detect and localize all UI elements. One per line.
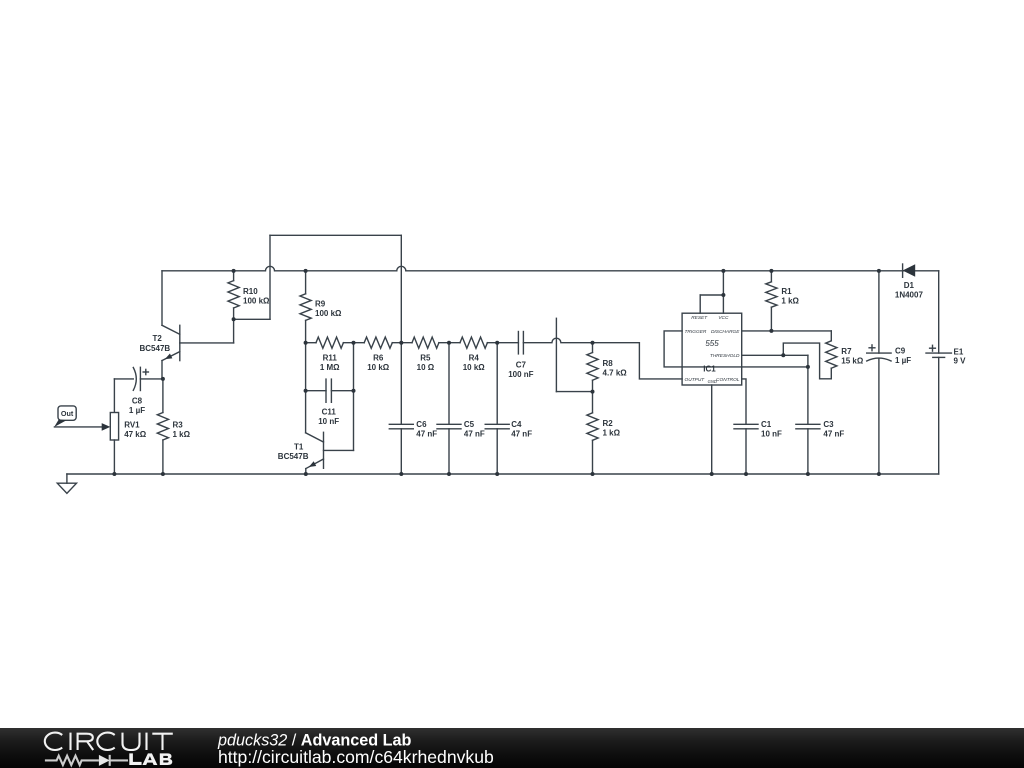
svg-text:47 nF: 47 nF bbox=[416, 430, 437, 439]
svg-text:R11: R11 bbox=[323, 353, 338, 362]
svg-text:RESET: RESET bbox=[691, 315, 708, 321]
svg-text:1 MΩ: 1 MΩ bbox=[320, 363, 340, 372]
svg-text:T2: T2 bbox=[153, 334, 163, 343]
svg-text:47 kΩ: 47 kΩ bbox=[124, 430, 147, 439]
svg-text:9 V: 9 V bbox=[954, 357, 967, 366]
svg-text:1 kΩ: 1 kΩ bbox=[173, 430, 191, 439]
svg-text:R3: R3 bbox=[173, 420, 184, 429]
svg-text:BC547B: BC547B bbox=[278, 452, 309, 461]
svg-text:1 kΩ: 1 kΩ bbox=[781, 297, 799, 306]
svg-text:C4: C4 bbox=[511, 420, 522, 429]
svg-text:http://circuitlab.com/c64krhed: http://circuitlab.com/c64krhednvkub bbox=[218, 747, 494, 767]
svg-text:R2: R2 bbox=[603, 419, 614, 428]
svg-text:4.7 kΩ: 4.7 kΩ bbox=[603, 368, 628, 377]
svg-text:10 nF: 10 nF bbox=[318, 417, 339, 426]
svg-text:R7: R7 bbox=[841, 347, 852, 356]
svg-text:100 kΩ: 100 kΩ bbox=[243, 296, 270, 305]
svg-text:R10: R10 bbox=[243, 287, 258, 296]
svg-text:C3: C3 bbox=[823, 420, 834, 429]
svg-text:1 kΩ: 1 kΩ bbox=[603, 428, 621, 437]
svg-text:C11: C11 bbox=[322, 407, 337, 416]
svg-text:100 nF: 100 nF bbox=[508, 370, 533, 379]
svg-text:555: 555 bbox=[705, 339, 719, 348]
svg-text:1N4007: 1N4007 bbox=[895, 291, 924, 300]
svg-text:47 nF: 47 nF bbox=[823, 430, 844, 439]
svg-text:C7: C7 bbox=[516, 360, 527, 369]
svg-text:15 kΩ: 15 kΩ bbox=[841, 357, 864, 366]
svg-text:THRESHOLD: THRESHOLD bbox=[710, 353, 740, 359]
svg-text:R8: R8 bbox=[603, 359, 614, 368]
svg-text:OUTPUT: OUTPUT bbox=[685, 377, 706, 383]
svg-text:C6: C6 bbox=[416, 420, 427, 429]
svg-text:10 kΩ: 10 kΩ bbox=[367, 363, 390, 372]
svg-text:RV1: RV1 bbox=[124, 420, 140, 429]
svg-text:R6: R6 bbox=[373, 353, 384, 362]
svg-text:C9: C9 bbox=[895, 346, 906, 355]
svg-text:1 µF: 1 µF bbox=[895, 356, 911, 365]
svg-text:BC547B: BC547B bbox=[140, 344, 171, 353]
svg-text:R4: R4 bbox=[469, 353, 480, 362]
svg-text:DISCHARGE: DISCHARGE bbox=[711, 329, 740, 335]
svg-text:Out: Out bbox=[61, 409, 74, 418]
svg-text:TRIGGER: TRIGGER bbox=[685, 329, 707, 335]
svg-text:10 kΩ: 10 kΩ bbox=[463, 363, 486, 372]
svg-text:R5: R5 bbox=[420, 353, 431, 362]
svg-text:VCC: VCC bbox=[718, 315, 729, 321]
svg-text:C1: C1 bbox=[761, 420, 772, 429]
svg-text:100 kΩ: 100 kΩ bbox=[315, 309, 342, 318]
svg-text:T1: T1 bbox=[294, 442, 304, 451]
svg-text:R1: R1 bbox=[781, 287, 792, 296]
svg-text:E1: E1 bbox=[954, 347, 964, 356]
svg-text:C5: C5 bbox=[464, 420, 475, 429]
svg-text:C8: C8 bbox=[132, 396, 143, 405]
svg-text:10 nF: 10 nF bbox=[761, 430, 782, 439]
svg-text:10 Ω: 10 Ω bbox=[417, 363, 435, 372]
svg-text:IC1: IC1 bbox=[703, 365, 716, 374]
svg-text:47 nF: 47 nF bbox=[464, 430, 485, 439]
svg-text:D1: D1 bbox=[904, 281, 915, 290]
svg-text:CONTROL: CONTROL bbox=[716, 377, 740, 383]
svg-text:R9: R9 bbox=[315, 300, 326, 309]
svg-text:47 nF: 47 nF bbox=[511, 430, 532, 439]
svg-text:1 µF: 1 µF bbox=[129, 406, 145, 415]
